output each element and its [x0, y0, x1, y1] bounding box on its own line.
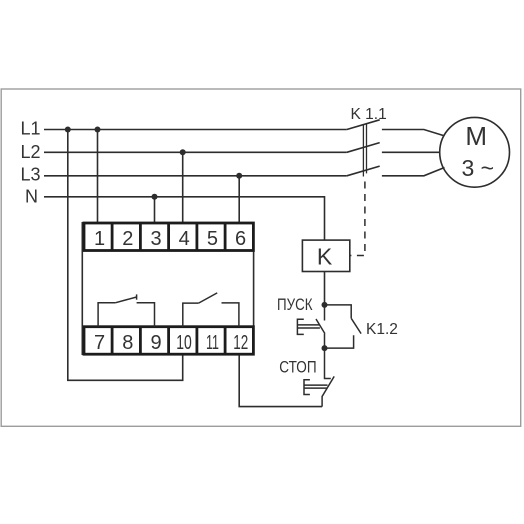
node B (start branch bottom) [322, 345, 328, 351]
svg-text:K 1.1: K 1.1 [351, 106, 387, 123]
relay contact terminals 10-12 [183, 303, 199, 327]
svg-text:N: N [25, 187, 38, 207]
wire K1.1 to motor phase 2 [382, 151, 440, 153]
svg-text:K: K [317, 244, 333, 270]
svg-text:8: 8 [122, 332, 133, 354]
svg-text:9: 9 [150, 332, 161, 354]
aux contact K1.2 [325, 305, 362, 348]
wire K1.1 to motor phase 3 [382, 168, 445, 176]
wire L2 to terminal 4 [182, 152, 184, 223]
relay contact terminals 7-9 [98, 303, 115, 327]
wire L1 left branch to terminal 10 [68, 130, 183, 381]
svg-text:2: 2 [122, 228, 133, 250]
terminal row 1-6 [84, 223, 253, 251]
wire L2 rail [44, 151, 347, 153]
svg-text:M: M [465, 121, 487, 151]
svg-text:L1: L1 [20, 119, 40, 139]
svg-text:5: 5 [207, 228, 218, 250]
wire coil K to node A [324, 272, 326, 305]
wire L1 rail [44, 129, 347, 131]
svg-text:7: 7 [94, 332, 105, 354]
contact K1.1 pole L2 [347, 143, 380, 153]
svg-text:12: 12 [233, 332, 248, 354]
svg-text:L3: L3 [20, 165, 40, 185]
node L2 terminal-4 junction [180, 149, 186, 155]
svg-text:СТОП: СТОП [279, 358, 316, 376]
motor M 3~ [440, 117, 510, 187]
node A (start branch top) [322, 302, 328, 308]
svg-text:3: 3 [150, 228, 161, 250]
stop button СТОП contact [322, 348, 334, 407]
svg-text:ПУСК: ПУСК [277, 296, 313, 314]
terminal row 7-12 [84, 327, 253, 355]
node L1 terminal-1 junction [95, 127, 101, 133]
wire L1 to terminal 1 [97, 130, 99, 223]
contact K1.1 pole L3 [347, 166, 380, 176]
relay module outline [82, 223, 253, 354]
contact K1.1 linkage bar [363, 124, 366, 176]
start button ПУСК plunger [297, 319, 320, 334]
svg-text:3 ~: 3 ~ [461, 155, 494, 181]
coil K [302, 240, 349, 271]
svg-text:1: 1 [94, 228, 105, 250]
dashed mechanical link K1.1 to coil K [351, 182, 365, 256]
node N terminal-3 junction [152, 194, 158, 200]
node L1 left junction [65, 127, 71, 133]
svg-text:L2: L2 [20, 142, 40, 162]
wire L3 to terminal 6 [238, 176, 240, 223]
stop button СТОП plunger [304, 380, 328, 395]
svg-text:4: 4 [179, 228, 190, 250]
node L3 terminal-6 junction [236, 173, 242, 179]
wire K1.1 to motor phase 1 [382, 130, 445, 136]
contact K1.1 pole L1 [347, 120, 380, 130]
wire N rail to coil K [44, 197, 325, 240]
wire terminal 12 to stop button [239, 354, 322, 406]
wire N to terminal 3 [154, 197, 156, 223]
svg-text:11: 11 [206, 332, 219, 354]
svg-text:10: 10 [176, 332, 192, 354]
start button ПУСК contact [316, 305, 325, 348]
svg-text:6: 6 [235, 228, 246, 250]
wire L3 rail [44, 175, 347, 177]
svg-text:K1.2: K1.2 [366, 321, 398, 338]
